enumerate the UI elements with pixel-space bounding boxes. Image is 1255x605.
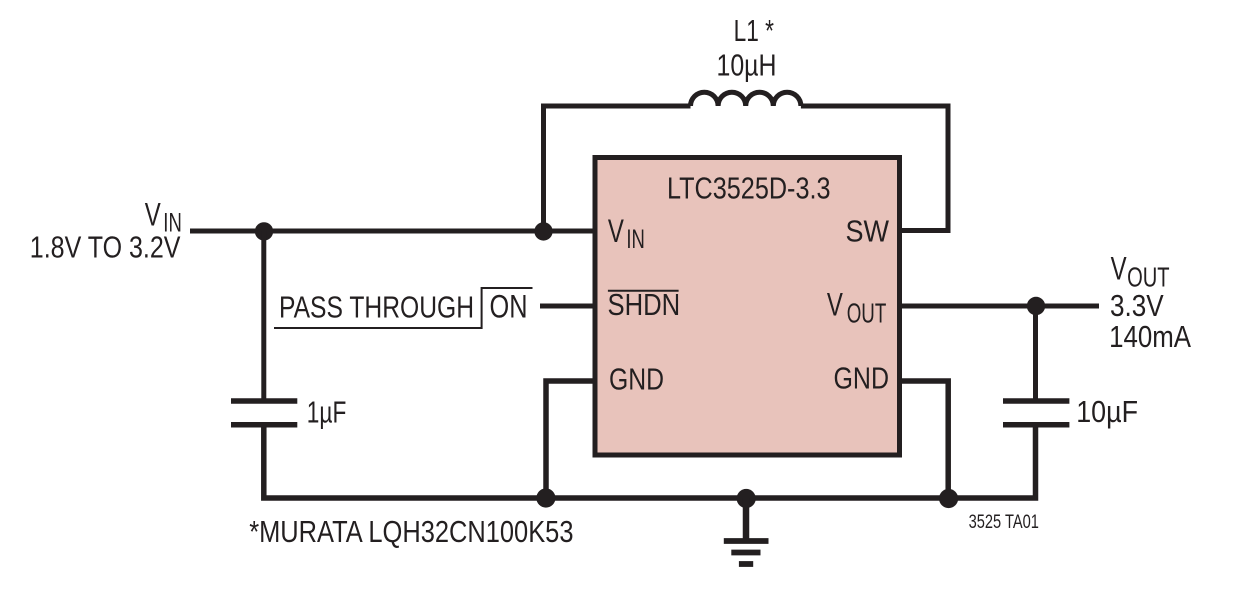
note *MURATA LQH32CN100K53 <box>249 514 573 549</box>
wire: C1 down to ground rail and rail to C2 bottom <box>264 427 1036 498</box>
svg-text:1.8V TO 3.2V: 1.8V TO 3.2V <box>30 229 181 264</box>
annotation PASS THROUGH / ON level <box>274 288 533 328</box>
pin label SHDN (with overline) <box>608 287 681 322</box>
wire: left GND pin to ground rail <box>546 381 595 498</box>
svg-text:L1 *: L1 * <box>734 13 774 48</box>
value label 10µH <box>717 47 777 82</box>
value label 10µF <box>1076 394 1138 429</box>
svg-text:10µH: 10µH <box>717 47 777 82</box>
value label 1.8V TO 3.2V <box>30 229 181 264</box>
svg-text:GND: GND <box>834 360 890 395</box>
net label VOUT (output) <box>1111 251 1170 293</box>
value label 1µF <box>307 394 347 429</box>
svg-text:1µF: 1µF <box>307 394 347 429</box>
node: VIN junction <box>255 222 273 240</box>
figure id 3525 TA01 <box>969 512 1039 533</box>
ground <box>724 498 769 564</box>
svg-text:140mA: 140mA <box>1109 319 1191 354</box>
label L1* <box>734 13 774 48</box>
wire: VIN node down to C1 <box>261 231 266 399</box>
wire: VOUT pin to output <box>900 304 1100 309</box>
svg-text:SHDN: SHDN <box>608 287 681 322</box>
svg-text:ON: ON <box>490 289 528 325</box>
IC title LTC3525D-3.3 <box>667 170 831 205</box>
capacitor C2 10µF <box>1003 401 1069 425</box>
pin label GND (left) <box>609 361 664 396</box>
wire: right GND pin to ground rail <box>900 381 949 498</box>
value label 3.3V <box>1110 288 1164 323</box>
pin label VOUT <box>827 286 887 328</box>
net label VIN (input) <box>145 197 182 238</box>
node: VOUT junction <box>1027 297 1045 315</box>
svg-text:*MURATA LQH32CN100K53: *MURATA LQH32CN100K53 <box>249 514 573 549</box>
node: top-left junction <box>534 222 552 240</box>
pin label VIN <box>608 213 645 254</box>
wire: ON annotation to SHDN pin <box>540 304 595 309</box>
wire: VOUT node down to C2 <box>1033 306 1038 399</box>
node: C1 ground rail junction <box>536 488 555 507</box>
value label 140mA <box>1109 319 1191 354</box>
wire: VIN node up to top rail, left segment of inductor loop <box>544 106 691 231</box>
IC U1 LTC3525D-3.3 <box>595 158 900 456</box>
svg-text:3.3V: 3.3V <box>1110 288 1164 323</box>
svg-text:GND: GND <box>609 361 664 396</box>
wire: inductor to SW pin <box>801 106 948 231</box>
pin label SW <box>846 213 890 248</box>
svg-text:LTC3525D-3.3: LTC3525D-3.3 <box>667 170 831 205</box>
inductor L1 <box>691 92 801 106</box>
capacitor C1 1µF <box>231 401 297 425</box>
svg-text:SW: SW <box>846 213 890 248</box>
wire: VIN input to IC VIN pin <box>190 229 595 234</box>
svg-text:10µF: 10µF <box>1076 394 1138 429</box>
svg-text:3525 TA01: 3525 TA01 <box>969 512 1039 533</box>
pin label GND (right) <box>834 360 890 395</box>
svg-text:PASS THROUGH: PASS THROUGH <box>279 289 474 324</box>
node: right GND rail junction <box>939 489 958 508</box>
node: ground symbol junction <box>737 489 756 508</box>
